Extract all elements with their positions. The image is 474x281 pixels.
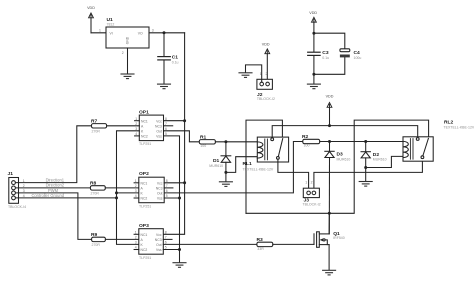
optocoupler OP2 [134, 171, 173, 208]
diode D1 MUR610 [209, 142, 231, 173]
node VO/C1 junction [163, 31, 166, 34]
ground (D1) [219, 182, 232, 187]
svg-text:R7: R7 [91, 118, 98, 124]
svg-text:MUR610: MUR610 [373, 158, 387, 162]
svg-text:1: 1 [305, 181, 307, 185]
svg-text:NC1: NC1 [141, 119, 148, 123]
ground (C1) [158, 84, 171, 89]
svg-text:7: 7 [165, 122, 167, 126]
wire VDD motor bus [272, 126, 418, 138]
svg-text:270R: 270R [91, 191, 100, 195]
wire J1 pin2 Direction2 to R8 [15, 187, 90, 189]
wire D1 anode to ground [225, 172, 227, 181]
diode D3 MUR610 [325, 142, 351, 162]
ground (Vss rail) [173, 263, 186, 268]
svg-text:4: 4 [23, 194, 25, 198]
svg-text:GND: GND [126, 36, 130, 44]
svg-text:8: 8 [165, 231, 167, 235]
wire Vcc rail (12V) down to OP3 [163, 33, 184, 235]
resistor R1 [199, 134, 215, 147]
svg-text:2: 2 [122, 51, 124, 55]
svg-text:OP1: OP1 [139, 110, 149, 116]
svg-text:3: 3 [135, 189, 137, 193]
wire J1 pin1 Direction1 to R7 [15, 126, 91, 183]
svg-text:NC2: NC2 [141, 248, 148, 252]
capacitor C1 [158, 33, 179, 84]
wire J1 pin3 PWM to R9 [15, 193, 91, 240]
wire OP1 Vcc to rail [164, 120, 185, 122]
wire C3/C4 bottom [314, 57, 345, 74]
node K rail OP2 junction [115, 191, 118, 194]
svg-text:VDD: VDD [262, 42, 270, 46]
svg-text:TBLOCK-I2: TBLOCK-I2 [257, 97, 275, 101]
ground (C3) [307, 84, 320, 89]
node K rail pin4 junction [115, 196, 118, 199]
wire U1 GND pin [127, 48, 129, 74]
svg-text:NC2: NC2 [141, 197, 148, 201]
wire OP2 Out to R2 [164, 142, 303, 193]
svg-text:TEXTELL-KBE-12V: TEXTELL-KBE-12V [243, 168, 274, 172]
svg-text:Vss: Vss [157, 197, 163, 201]
wire R1 to RL1 coil [215, 141, 257, 143]
svg-text:Controller Ground: Controller Ground [31, 193, 64, 198]
svg-text:VDD: VDD [326, 95, 334, 99]
svg-text:R3: R3 [257, 237, 264, 243]
wire RL1 common to J3 pin1 [278, 159, 309, 188]
svg-text:6: 6 [166, 189, 168, 193]
svg-text:33R: 33R [257, 247, 264, 251]
svg-text:TLP251: TLP251 [139, 142, 151, 146]
svg-text:100: 100 [200, 144, 206, 148]
svg-text:0.1u: 0.1u [322, 56, 329, 60]
resistor R9 [91, 232, 105, 247]
svg-text:5: 5 [165, 132, 167, 136]
svg-text:4: 4 [135, 132, 137, 136]
svg-text:2: 2 [135, 184, 137, 188]
node VDD bus junction [328, 124, 331, 127]
resistor R7 [91, 118, 107, 133]
svg-text:VO: VO [138, 32, 143, 36]
svg-text:1: 1 [23, 179, 25, 183]
node C3 bottom junction [312, 73, 315, 76]
ground (U1) [121, 74, 134, 79]
node R2/D3 junction [328, 140, 331, 143]
wire Q1 drain up [328, 213, 330, 234]
wire J2 pin1 to ground [246, 65, 262, 82]
svg-text:100u: 100u [354, 56, 362, 60]
wire OP2 Vss to rail [164, 197, 179, 199]
wire D2 anode to ground [365, 168, 367, 182]
wire D1 anode to RL1 coil bottom [226, 157, 257, 173]
wire OP3 Vss to rail [163, 249, 179, 251]
ground (Q1 source) [323, 270, 336, 275]
wire switched bus bottom [246, 120, 429, 213]
node R1/D1 junction [224, 140, 227, 143]
svg-text:Vcc: Vcc [156, 233, 162, 237]
svg-text:TEXTELL-KBE-12V: TEXTELL-KBE-12V [444, 125, 474, 129]
svg-text:2: 2 [311, 181, 313, 185]
wire C3/C4 top [314, 33, 345, 49]
svg-text:RL1: RL1 [243, 161, 253, 167]
svg-text:0.1u: 0.1u [172, 60, 179, 64]
svg-text:4: 4 [135, 246, 137, 250]
svg-text:NC3: NC3 [156, 187, 163, 191]
resistor R3 [257, 237, 273, 251]
svg-text:VDD: VDD [309, 11, 317, 15]
wire OP3 Out to R3 [163, 243, 257, 245]
power VDD symbol (U1 input) [87, 6, 95, 33]
wire R8 to OP2 A [105, 187, 139, 189]
wire D2 anode to RL2 coil bottom [366, 156, 403, 167]
svg-text:NC3: NC3 [155, 238, 162, 242]
ground (D2) [359, 182, 372, 187]
node OP2 Vcc junction [183, 181, 186, 184]
svg-text:Out: Out [157, 192, 163, 196]
svg-text:2: 2 [135, 236, 137, 240]
relay RL2 TEXTELL-KBE-12V [403, 120, 474, 162]
wire Vss rail down to ground [164, 136, 180, 262]
optocoupler OP3 [134, 223, 172, 260]
svg-text:3: 3 [23, 189, 25, 193]
svg-text:IRF540: IRF540 [333, 236, 345, 240]
regulator U1 7812 [99, 17, 154, 55]
svg-text:7: 7 [166, 184, 168, 188]
svg-text:Vcc: Vcc [156, 119, 162, 123]
wire RL2 common to J3 pin2 [314, 159, 423, 189]
terminal block J3 [303, 181, 321, 207]
power VDD symbol (C3/C4) [309, 11, 317, 33]
svg-text:2: 2 [23, 184, 25, 188]
svg-text:OP3: OP3 [139, 223, 149, 229]
wire R7 to OP1 A [107, 125, 140, 127]
svg-text:TBLOCK-I4: TBLOCK-I4 [8, 205, 26, 209]
terminal block J2 [257, 72, 275, 101]
node OP2 Vss junction [178, 197, 181, 200]
node OP3 Vss junction [178, 248, 181, 251]
svg-text:J1: J1 [8, 171, 14, 177]
terminal block J1 [8, 171, 27, 209]
svg-text:NC1: NC1 [141, 181, 148, 185]
wire VDD to U1 VI [91, 32, 106, 34]
node D1 anode junction [224, 171, 227, 174]
power VDD symbol (J2) [262, 42, 270, 82]
svg-text:2: 2 [266, 72, 268, 76]
svg-text:1: 1 [135, 231, 137, 235]
svg-text:1: 1 [135, 117, 137, 121]
transistor Q1 IRF540 [314, 231, 345, 270]
svg-text:TLP251: TLP251 [139, 256, 151, 260]
capacitor C4 (electrolytic) [340, 49, 361, 60]
wire OP1 Out to R1 [164, 131, 200, 142]
svg-text:OP2: OP2 [139, 171, 149, 177]
svg-text:R8: R8 [90, 180, 97, 186]
svg-text:VI: VI [110, 32, 113, 36]
svg-text:1: 1 [135, 179, 137, 183]
svg-text:7812: 7812 [107, 23, 115, 27]
svg-text:1: 1 [99, 29, 101, 33]
wire R9 to OP3 A [105, 238, 138, 240]
node OP1 Vcc junction [183, 119, 186, 122]
svg-text:R9: R9 [91, 232, 98, 238]
wire R3 to Q1 gate [273, 243, 314, 245]
svg-text:3: 3 [152, 29, 154, 33]
svg-text:R1: R1 [200, 134, 207, 140]
wire D3 anode to Q1 drain [328, 158, 330, 234]
resistor R8 [90, 180, 105, 195]
svg-text:7: 7 [165, 236, 167, 240]
svg-text:4: 4 [135, 194, 137, 198]
svg-text:270R: 270R [92, 129, 101, 133]
svg-text:MUR610: MUR610 [209, 164, 223, 168]
wire U1 VO to +12V rail [149, 32, 185, 34]
svg-text:Out: Out [156, 243, 162, 247]
wire OP2 Vcc to rail [164, 182, 184, 184]
svg-text:Out: Out [156, 129, 162, 133]
svg-text:270R: 270R [92, 243, 101, 247]
svg-text:R2: R2 [302, 134, 309, 140]
node C3 top junction [312, 32, 315, 35]
wire switched bus left vertical [246, 120, 282, 213]
svg-text:NC1: NC1 [141, 233, 148, 237]
svg-text:3: 3 [135, 241, 137, 245]
capacitor C3 [308, 33, 329, 83]
svg-text:100: 100 [304, 143, 310, 147]
wire K rail OP1-OP3 [117, 131, 140, 245]
svg-text:Vss: Vss [156, 248, 162, 252]
svg-text:TLP251: TLP251 [139, 204, 151, 208]
wire J1 pin4 Controller Ground to K rail [15, 197, 116, 199]
relay RL1 TEXTELL-KBE-12V [243, 137, 289, 172]
node D2 cathode junction [364, 140, 367, 143]
svg-text:MUR610: MUR610 [337, 157, 351, 161]
svg-text:NC2: NC2 [141, 135, 148, 139]
power VDD symbol (motor bus) [326, 95, 334, 126]
optocoupler OP1 [135, 110, 173, 147]
pin numbers J1 [23, 179, 25, 198]
svg-text:Vcc: Vcc [157, 181, 163, 185]
diode D2 MUR610 [361, 142, 387, 168]
svg-text:Vss: Vss [156, 135, 162, 139]
svg-text:VDD: VDD [87, 6, 95, 10]
resistor R2 [302, 134, 320, 147]
node D2 anode junction [364, 166, 367, 169]
wire K rail to OP2 K [117, 192, 139, 194]
svg-text:NC3: NC3 [155, 124, 162, 128]
svg-text:TBLOCK-I2: TBLOCK-I2 [303, 202, 321, 206]
wire R2 to RL2 coil top [320, 141, 403, 143]
ground (J2) [239, 73, 252, 78]
node Q1 drain junction [328, 212, 331, 215]
